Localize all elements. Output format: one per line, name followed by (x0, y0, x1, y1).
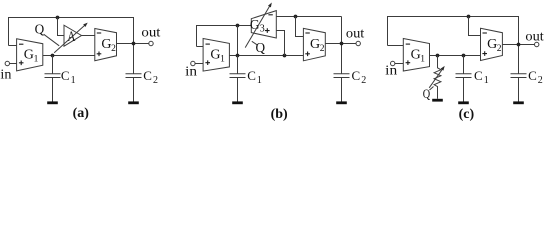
terminal out (c) (535, 42, 539, 46)
svg-text:2: 2 (320, 44, 325, 54)
svg-text:Q: Q (423, 87, 430, 101)
capacitor C1 (a) (45, 56, 61, 102)
wire G2c output to out (502, 44, 534, 46)
svg-text:(a): (a) (73, 106, 90, 121)
svg-text:2: 2 (153, 75, 158, 86)
svg-text:C: C (352, 68, 361, 83)
wire G2b output to out (325, 43, 356, 45)
ground under C2 (c) (513, 101, 524, 104)
capacitor C2 (c) (511, 74, 527, 102)
node out junction (c) (517, 43, 521, 47)
capacitor C2 (a) (126, 74, 142, 102)
svg-text:1: 1 (420, 54, 425, 64)
node G3b plus tap (283, 54, 287, 58)
ground under C1 (b) (232, 101, 243, 104)
svg-text:2: 2 (361, 75, 366, 86)
op-amp G1 (a) (17, 39, 43, 71)
svg-text:2: 2 (111, 44, 116, 54)
svg-text:C: C (474, 68, 483, 83)
op-amp G3 (b) (251, 11, 276, 38)
svg-text:out: out (525, 30, 544, 45)
wire in to G1c plus (395, 63, 403, 65)
svg-text:C: C (61, 68, 70, 83)
svg-text:1: 1 (34, 54, 39, 64)
node C1c junction (462, 54, 466, 58)
node G2b minus tap (294, 15, 298, 19)
op-amp G2 (c) (481, 28, 503, 60)
wire G1a output to G2a plus (43, 55, 95, 57)
wire G1a minus stub (9, 45, 17, 47)
node G2c minus tap (467, 15, 471, 19)
svg-text:Q: Q (35, 23, 45, 38)
wire feedback top (c) (388, 17, 519, 74)
node C1a junction (51, 54, 55, 58)
svg-text:in: in (0, 68, 11, 83)
svg-text:3: 3 (260, 24, 265, 35)
svg-text:out: out (141, 26, 160, 41)
wire in to G1a plus (10, 63, 17, 65)
svg-text:1: 1 (257, 75, 262, 86)
wire G3b output / G1b minus feedback (197, 26, 252, 47)
wire G3b plus link (276, 31, 284, 56)
ground under C2 (b) (336, 101, 347, 104)
op-amp G1 (b) (203, 39, 229, 72)
wire V1 vertical link (b) (237, 26, 239, 56)
ground under Q resistor (c) (432, 99, 443, 102)
svg-text:Q: Q (256, 41, 266, 56)
svg-text:G: G (487, 37, 497, 52)
op-amp G1 (c) (403, 39, 429, 72)
ground under C2 (a) (128, 101, 139, 104)
wire G1c output to G2c plus (430, 55, 481, 57)
ground under C1 (a) (47, 101, 58, 104)
terminal out (b) (356, 41, 360, 45)
node out junction (a) (132, 42, 136, 46)
terminal in (c) (391, 61, 395, 65)
node out junction (b) (340, 42, 344, 46)
svg-text:out: out (346, 27, 365, 42)
arrow variable-gm through G3 (b) (245, 6, 270, 48)
wire G2b minus link (296, 17, 304, 37)
node Q resistor junction (c) (436, 54, 440, 58)
svg-text:C: C (143, 68, 152, 83)
node A-input tap (a) (56, 16, 60, 20)
svg-text:2: 2 (538, 75, 543, 86)
wire G2c minus link (469, 17, 481, 36)
node C1b junction (236, 54, 240, 58)
arrow through Q resistor (c) (429, 69, 442, 87)
svg-text:1: 1 (71, 75, 76, 86)
amplifier A (a) (64, 25, 82, 46)
wire G1b output to G2b plus (229, 55, 303, 57)
svg-text:C: C (247, 68, 256, 83)
wire G3b minus feedback from out (276, 16, 341, 18)
svg-text:2: 2 (497, 44, 502, 54)
terminal in (b) (191, 61, 195, 65)
terminal out (a) (149, 41, 153, 45)
svg-text:in: in (185, 64, 197, 79)
capacitor C1 (c) (456, 56, 472, 102)
wire Q control line (a) (44, 34, 60, 46)
capacitor C2 (b) (334, 74, 350, 102)
op-amp G2 (b) (303, 28, 325, 60)
svg-text:C: C (528, 68, 537, 83)
svg-text:(c): (c) (459, 107, 475, 122)
wire G2a output to out (117, 43, 149, 45)
svg-text:G: G (310, 37, 320, 52)
wire in to G1b plus (195, 63, 203, 65)
wire G1c minus stub (388, 45, 404, 47)
svg-text:G: G (101, 37, 111, 52)
svg-text:1: 1 (220, 54, 225, 64)
svg-text:(b): (b) (271, 107, 288, 122)
wire feedback top (a) (9, 18, 134, 74)
resistor Q variable (c) (434, 56, 441, 99)
svg-text:G: G (411, 48, 421, 63)
arrow variable-gain through A (a) (54, 26, 84, 53)
capacitor C1 (b) (230, 56, 246, 102)
wire Q control line (c) (430, 87, 434, 91)
wire A output to G2a minus (82, 35, 95, 37)
wire G1b minus stub (197, 46, 204, 48)
svg-text:G: G (210, 48, 220, 63)
ground under C1 (c) (458, 101, 469, 104)
wire out feedback vertical (b) (341, 17, 343, 74)
terminal in (a) (5, 61, 9, 65)
wire Q control line (b) (252, 41, 257, 45)
wire A input tap (a) (58, 18, 65, 36)
svg-text:G: G (24, 48, 34, 63)
node V1 top tap (b) (236, 24, 240, 28)
op-amp G2 (a) (95, 29, 117, 61)
svg-text:1: 1 (484, 75, 489, 86)
svg-text:in: in (385, 63, 397, 78)
